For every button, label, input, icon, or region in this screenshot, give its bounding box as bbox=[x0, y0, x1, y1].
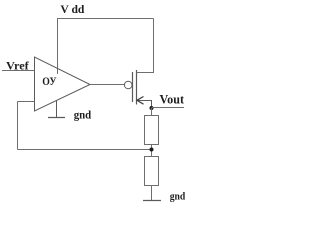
wire Vdd top rail bbox=[57, 18, 154, 20]
wire R2 to ground bbox=[151, 186, 153, 201]
wire drain to R1 bbox=[151, 108, 153, 116]
transistor Q1 channel bar bbox=[136, 70, 138, 105]
svg-text:gnd: gnd bbox=[170, 191, 186, 203]
ground symbol bottom bbox=[143, 200, 161, 202]
op-amp ground pin bbox=[56, 101, 58, 118]
transistor Q1 arrow (pointing to channel) bbox=[137, 97, 144, 105]
resistor R1 bbox=[145, 116, 159, 145]
wire Vref to non-inverting input bbox=[2, 70, 35, 72]
svg-text:V dd: V dd bbox=[60, 2, 84, 16]
ground symbol under op-amp bbox=[48, 117, 65, 119]
svg-text:ОУ: ОУ bbox=[42, 74, 56, 88]
svg-text:Vout: Vout bbox=[160, 92, 185, 107]
wire Vdd rail to op-amp V+ pin bbox=[57, 19, 59, 75]
node: feedback junction dot bbox=[150, 148, 154, 152]
wire inverting input bbox=[18, 101, 35, 103]
svg-text:gnd: gnd bbox=[74, 108, 92, 122]
op-amp U1 (ОУ) triangle bbox=[35, 57, 91, 111]
wire Vout tap bbox=[152, 107, 185, 109]
transistor Q1 PMOS gate bar bbox=[132, 72, 134, 102]
wire feedback horizontal to divider node bbox=[18, 149, 152, 151]
PMOS gate bubble bbox=[124, 81, 132, 89]
wire op-amp output to gate bbox=[90, 84, 125, 86]
wire Vdd rail to PMOS source bbox=[153, 19, 155, 74]
wire R1 to R2 bbox=[151, 145, 153, 157]
node: Vout junction dot bbox=[150, 106, 154, 110]
resistor R2 bbox=[145, 157, 159, 186]
wire feedback vertical bbox=[17, 102, 19, 150]
transistor Q1 drain terminal bbox=[137, 101, 152, 109]
transistor Q1 source terminal bbox=[137, 72, 154, 74]
